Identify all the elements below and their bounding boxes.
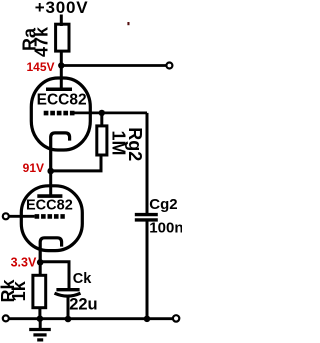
- wire +300V to Ra: [60, 15, 63, 27]
- terminal top-right: [166, 63, 172, 69]
- resistor Rg2: [97, 126, 107, 155]
- tube U2 anode bar: [37, 194, 62, 198]
- terminal bottom-left: [3, 315, 9, 321]
- junction node K2: [37, 259, 44, 266]
- stray red mark: [127, 22, 129, 25]
- wire node G down to Cg2: [146, 113, 149, 214]
- junction node G: [99, 110, 105, 116]
- capacitor Cg2 bottom plate: [135, 218, 158, 221]
- svg-text:91V: 91V: [23, 161, 44, 175]
- svg-text:1k: 1k: [9, 280, 29, 301]
- resistor Ra: [56, 24, 69, 51]
- wire Ra to anode node: [60, 51, 63, 90]
- capacitor Ck bottom plate (curved): [55, 293, 81, 296]
- resistor Rg2 top lead: [100, 113, 103, 127]
- svg-text:Cg2: Cg2: [149, 196, 177, 213]
- svg-text:47k: 47k: [31, 26, 51, 57]
- resistor Rk: [33, 275, 46, 307]
- wire input terminal to U2 grid: [9, 215, 35, 218]
- wire ground rail: [9, 317, 172, 320]
- tube U2 envelope: [21, 186, 82, 251]
- tube U1 grid dashes: [44, 111, 75, 116]
- tube U1 anode bar: [46, 88, 72, 92]
- svg-text:3.3V: 3.3V: [11, 256, 37, 270]
- svg-text:ECC82: ECC82: [37, 92, 87, 109]
- junction node K1: [47, 168, 54, 175]
- wire Rg2 bottom to node K1: [51, 155, 101, 171]
- tube U2 grid dashes: [35, 214, 65, 219]
- junction Cg2/ground: [144, 316, 151, 323]
- tube U1 envelope: [31, 78, 90, 150]
- junction Rk/ground: [37, 315, 44, 322]
- svg-text:ECC82: ECC82: [26, 197, 73, 213]
- resistor Rk top lead: [39, 262, 42, 276]
- capacitor Ck top plate: [56, 288, 79, 291]
- wire U1 grid to node G: [75, 112, 148, 115]
- svg-text:145V: 145V: [26, 60, 54, 74]
- wire node K1 to U2 anode: [49, 171, 52, 196]
- svg-text:Ck: Ck: [73, 271, 92, 287]
- tube U1 cathode: [51, 133, 70, 172]
- terminal bottom-right: [173, 315, 179, 321]
- capacitor Cg2 top plate: [135, 213, 158, 216]
- svg-text:22u: 22u: [69, 296, 97, 314]
- ground symbol: [29, 319, 51, 340]
- svg-text:1M: 1M: [108, 130, 128, 155]
- wire Ck bottom lead: [67, 296, 70, 319]
- wire Cg2 to ground rail: [146, 222, 149, 320]
- junction anode node: [58, 62, 64, 68]
- tube U2 cathode: [40, 238, 61, 263]
- terminal input: [3, 213, 9, 219]
- wire node K2 to Ck: [40, 262, 69, 289]
- svg-text:100n: 100n: [149, 220, 182, 237]
- junction Ck/ground: [65, 316, 72, 323]
- wire anode node to output terminal: [61, 64, 166, 67]
- resistor Rk bottom lead: [38, 307, 41, 320]
